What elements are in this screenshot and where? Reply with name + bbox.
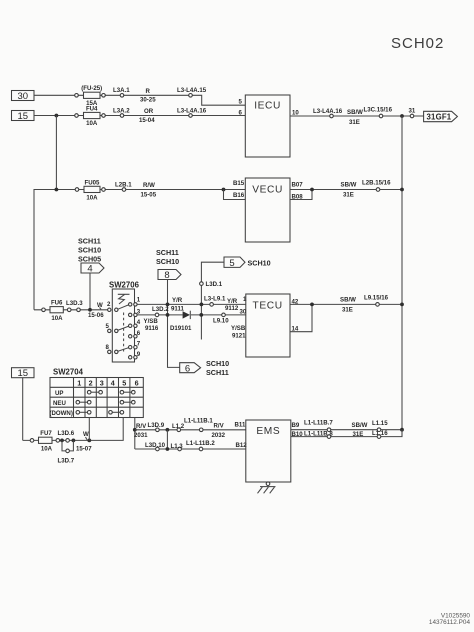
svg-text:VECU: VECU bbox=[252, 184, 283, 195]
wire label Y/R 9112 bbox=[225, 298, 239, 312]
terminal box 15 lower bbox=[12, 368, 35, 379]
wire TECU 14 tie bbox=[290, 304, 312, 331]
switch SW2704 table bbox=[50, 367, 144, 417]
op-amp U2: VECU box bbox=[245, 178, 290, 242]
svg-text:B16: B16 bbox=[233, 192, 245, 199]
svg-text:5: 5 bbox=[229, 258, 234, 269]
junction bbox=[310, 188, 314, 192]
svg-text:6: 6 bbox=[135, 378, 139, 387]
svg-text:8: 8 bbox=[164, 270, 169, 281]
svg-text:7: 7 bbox=[137, 341, 141, 348]
junction flag4 tie bbox=[88, 308, 92, 312]
svg-text:R/V: R/V bbox=[214, 422, 225, 429]
svg-text:B15: B15 bbox=[233, 180, 245, 187]
junction bbox=[55, 188, 59, 192]
svg-text:9111: 9111 bbox=[171, 305, 184, 312]
contact UP 2-3 bbox=[87, 390, 102, 394]
ground bus 31E vertical bbox=[401, 116, 403, 437]
svg-text:SW2704: SW2704 bbox=[53, 367, 84, 376]
svg-text:4: 4 bbox=[137, 319, 141, 326]
wire label R/W 15-05 bbox=[141, 182, 157, 198]
wire label Y/R 9111 bbox=[171, 297, 184, 312]
op-amp U4: EMS box bbox=[246, 420, 291, 482]
svg-text:SCH10: SCH10 bbox=[248, 258, 271, 267]
junction flag8 net on wire1 bbox=[166, 303, 170, 307]
junction jumper left bbox=[60, 439, 64, 443]
svg-text:L3D.7: L3D.7 bbox=[58, 457, 75, 464]
terminal box 30 bbox=[12, 91, 35, 102]
svg-text:31E: 31E bbox=[349, 119, 360, 126]
svg-text:L1-L11B.1: L1-L11B.1 bbox=[184, 417, 213, 424]
junction tie on B11 net bbox=[166, 428, 170, 432]
wire label SB/W 31E bbox=[341, 182, 357, 199]
wire VECU B08 tie bbox=[290, 190, 312, 200]
svg-text:L3A.1: L3A.1 bbox=[113, 87, 130, 94]
svg-text:4: 4 bbox=[111, 378, 115, 387]
terminal circle bbox=[67, 308, 71, 312]
switch SW2706 bbox=[109, 280, 140, 362]
terminal circle bbox=[30, 439, 34, 443]
svg-text:(DOWN): (DOWN) bbox=[50, 410, 73, 417]
svg-text:D19101: D19101 bbox=[170, 325, 192, 332]
svg-text:SB/W: SB/W bbox=[347, 109, 363, 116]
junction L3D.1 net on wire1 bbox=[200, 303, 204, 307]
net labels SCH11 SCH10 right bbox=[156, 248, 179, 266]
node L1-L11B.2 bbox=[186, 440, 215, 451]
junction B15/B16 tie bbox=[222, 188, 226, 192]
svg-text:IECU: IECU bbox=[254, 101, 281, 112]
op-amp U3: TECU box bbox=[246, 294, 290, 357]
node L3A.1 bbox=[113, 87, 130, 97]
jumper loop L3D.7 bbox=[58, 440, 75, 464]
wire label R/V 2032 bbox=[212, 422, 226, 439]
flag 8 bbox=[158, 270, 181, 282]
svg-text:EMS: EMS bbox=[256, 426, 280, 437]
terminal circle bbox=[75, 188, 79, 192]
wire 30 rail bbox=[34, 95, 245, 105]
node L2B.15/16 bbox=[362, 179, 391, 191]
svg-text:1: 1 bbox=[77, 378, 81, 387]
svg-text:TECU: TECU bbox=[253, 301, 283, 312]
flag 4 bbox=[81, 263, 104, 275]
node L2B.1 bbox=[115, 181, 132, 191]
svg-text:L9.10: L9.10 bbox=[213, 317, 229, 324]
wire left 15-net vertical bbox=[23, 116, 57, 441]
node L9.10 bbox=[213, 313, 229, 324]
svg-text:30: 30 bbox=[18, 91, 29, 102]
svg-text:L3D.1: L3D.1 bbox=[206, 281, 223, 288]
junction on B11 net bbox=[133, 428, 137, 432]
pin circles right rows 1 3 4 6 7 9 bbox=[129, 303, 138, 359]
wire EMS B10 to bus bbox=[291, 430, 402, 437]
net labels SCH11 SCH10 SCH05 bbox=[78, 236, 101, 263]
wire IECU pin10 to bus bbox=[290, 115, 424, 117]
svg-text:15-05: 15-05 bbox=[141, 191, 157, 198]
svg-text:L9.15/16: L9.15/16 bbox=[364, 295, 389, 302]
svg-text:2: 2 bbox=[89, 378, 93, 387]
wire 15 rail bbox=[34, 115, 245, 117]
svg-text:10A: 10A bbox=[86, 194, 98, 201]
contact pin2-pin1 bbox=[118, 305, 129, 309]
svg-text:L1.2: L1.2 bbox=[172, 423, 185, 430]
svg-text:4: 4 bbox=[87, 264, 92, 275]
wire label R/V 2031 bbox=[134, 423, 148, 439]
node L3D.9 bbox=[148, 422, 165, 431]
svg-text:B9: B9 bbox=[292, 422, 300, 429]
svg-text:SB/W: SB/W bbox=[341, 182, 357, 189]
flag 5 bbox=[224, 257, 271, 269]
node 31 bbox=[409, 107, 416, 117]
svg-text:R: R bbox=[146, 88, 151, 95]
terminal circle bbox=[75, 114, 79, 118]
svg-text:SCH11: SCH11 bbox=[206, 368, 229, 377]
node L1.16 bbox=[372, 430, 388, 439]
node L1-L11B.1 bbox=[184, 417, 213, 431]
svg-text:10A: 10A bbox=[41, 445, 53, 452]
svg-text:SCH10: SCH10 bbox=[78, 245, 101, 254]
svg-text:SCH11: SCH11 bbox=[156, 248, 179, 257]
contact UP 5-6 bbox=[120, 390, 135, 394]
node L1.15 bbox=[372, 420, 388, 431]
svg-text:L1.15: L1.15 bbox=[372, 420, 388, 427]
svg-text:OR: OR bbox=[144, 108, 154, 115]
svg-text:L3A.2: L3A.2 bbox=[113, 107, 130, 114]
junction bus TECU bbox=[400, 303, 404, 307]
svg-text:FU7: FU7 bbox=[40, 430, 52, 437]
svg-text:6: 6 bbox=[137, 330, 141, 337]
contact pin5-pin4 bbox=[118, 326, 129, 330]
svg-text:SCH05: SCH05 bbox=[78, 254, 101, 263]
svg-text:9121: 9121 bbox=[232, 332, 246, 339]
svg-text:6: 6 bbox=[185, 363, 190, 374]
svg-text:R/W: R/W bbox=[143, 182, 155, 189]
svg-text:(FU-25): (FU-25) bbox=[81, 85, 102, 92]
svg-text:31E: 31E bbox=[343, 191, 354, 198]
svg-text:9116: 9116 bbox=[145, 325, 159, 332]
svg-text:FU6: FU6 bbox=[51, 300, 63, 307]
wire label R 30-25 bbox=[140, 88, 156, 104]
svg-text:B11: B11 bbox=[235, 421, 246, 428]
op-amp U1: IECU box bbox=[245, 95, 290, 157]
node L3D.3 bbox=[66, 300, 83, 311]
svg-text:15-06: 15-06 bbox=[88, 312, 104, 319]
svg-text:FU4: FU4 bbox=[86, 105, 98, 112]
wire EMS B9 to bus bbox=[291, 429, 402, 431]
label Y/SB 9121 bbox=[231, 325, 246, 339]
terminal box 15 bbox=[12, 111, 35, 122]
wire label SB/W 31E bbox=[340, 296, 356, 313]
pin4 label Y/SB 9116 bbox=[144, 318, 159, 332]
wire label W 15-06 bbox=[88, 302, 104, 319]
svg-text:SCH11: SCH11 bbox=[78, 236, 101, 245]
wire FU7 rail bbox=[23, 418, 124, 441]
ground EMS bbox=[258, 482, 276, 493]
svg-text:R/V: R/V bbox=[136, 423, 147, 430]
wire flag5 to L3D.1 bbox=[201, 262, 224, 339]
contact NEU 1-2 bbox=[76, 400, 91, 404]
flag 6 bbox=[180, 363, 201, 375]
terminal circle bbox=[102, 94, 106, 98]
svg-text:15: 15 bbox=[18, 111, 29, 122]
fuse FU4 10A bbox=[84, 105, 101, 127]
svg-text:15: 15 bbox=[18, 368, 29, 379]
junction bbox=[310, 303, 314, 307]
svg-text:10A: 10A bbox=[86, 120, 98, 127]
svg-text:L1.16: L1.16 bbox=[372, 430, 388, 437]
node L3D.10 bbox=[145, 442, 166, 451]
junction bus EMS bbox=[400, 428, 404, 432]
node L1-L11B.7 bbox=[304, 419, 333, 431]
svg-text:15-07: 15-07 bbox=[76, 446, 92, 453]
svg-text:Y/R: Y/R bbox=[172, 297, 183, 304]
svg-text:31E: 31E bbox=[342, 307, 353, 314]
svg-text:SB/W: SB/W bbox=[352, 422, 368, 429]
node L3-L4A.16 bbox=[177, 107, 207, 117]
svg-text:L1.3: L1.3 bbox=[171, 443, 184, 450]
wire TECU 42 to bus bbox=[290, 303, 402, 305]
contact pin8-pin7 bbox=[118, 348, 129, 352]
node L3C.15/16 bbox=[364, 107, 393, 118]
fuse FU05 10A bbox=[84, 179, 100, 201]
wire SW2706 pin3 to TECU pin30 bbox=[137, 314, 246, 316]
node L1.2 bbox=[172, 423, 185, 432]
wire EMS B11 net bbox=[135, 429, 246, 431]
svg-text:L2B.15/16: L2B.15/16 bbox=[362, 179, 391, 186]
node L3D.2 bbox=[152, 306, 169, 317]
node L1.3 bbox=[171, 443, 184, 451]
node L3A.2 bbox=[113, 107, 130, 117]
svg-text:L3-L4A.16: L3-L4A.16 bbox=[313, 108, 343, 115]
wire SW2706 pin1 to TECU pin1 bbox=[137, 303, 246, 305]
wire col6 riser to B11/B12 nets bbox=[134, 418, 136, 450]
svg-text:15-04: 15-04 bbox=[139, 117, 155, 124]
svg-text:L3D.6: L3D.6 bbox=[58, 430, 75, 437]
pin circles left rows 2 5 8 bbox=[108, 308, 118, 354]
junction jumper right bbox=[72, 439, 76, 443]
fuse FU-25 15A bbox=[81, 85, 102, 107]
wire EMS B12 net bbox=[135, 448, 246, 450]
svg-text:FU05: FU05 bbox=[85, 179, 101, 186]
svg-text:L1-L11B.7: L1-L11B.7 bbox=[304, 419, 333, 426]
svg-text:L3-L4A.15: L3-L4A.15 bbox=[177, 87, 207, 94]
svg-text:9: 9 bbox=[137, 351, 141, 358]
node L3D.1 bbox=[200, 281, 223, 288]
svg-text:10A: 10A bbox=[51, 315, 63, 322]
svg-text:1: 1 bbox=[137, 297, 141, 304]
junction bus top bbox=[400, 114, 404, 118]
svg-text:L3D.10: L3D.10 bbox=[145, 442, 166, 449]
contact NEU 5-6 bbox=[120, 400, 135, 404]
fuse FU7 10A bbox=[39, 430, 53, 452]
wire VECU supply rail bbox=[34, 189, 245, 191]
svg-text:SB/W: SB/W bbox=[340, 296, 356, 303]
flag 31GF1 bbox=[424, 111, 458, 121]
svg-text:NEU: NEU bbox=[53, 400, 66, 407]
footer document numbers bbox=[429, 613, 471, 627]
node L3-L9.1 bbox=[204, 296, 226, 307]
svg-text:L3-L4A.16: L3-L4A.16 bbox=[177, 107, 207, 114]
svg-text:L3C.15/16: L3C.15/16 bbox=[364, 107, 393, 114]
pin number labels SW2706 bbox=[106, 297, 141, 359]
svg-text:L1-L11B.8: L1-L11B.8 bbox=[304, 430, 333, 437]
svg-text:Y/SB: Y/SB bbox=[144, 318, 159, 325]
junction flag8 net on wire3 bbox=[166, 313, 170, 317]
terminal circle bbox=[102, 114, 106, 118]
terminal circle bbox=[102, 188, 106, 192]
svg-text:9112: 9112 bbox=[225, 305, 239, 312]
terminal circle bbox=[75, 94, 79, 98]
junction stub on wire3 bbox=[199, 313, 203, 317]
wire flag4 to W net bbox=[89, 273, 91, 310]
wire VECU B07 to bus bbox=[290, 189, 402, 191]
svg-text:UP: UP bbox=[55, 390, 63, 397]
svg-text:L3-L9.1: L3-L9.1 bbox=[204, 296, 226, 303]
svg-text:L1-L11B.2: L1-L11B.2 bbox=[186, 440, 215, 447]
svg-text:14376112.P04: 14376112.P04 bbox=[429, 619, 471, 626]
node L3-L4A.15 bbox=[177, 87, 207, 97]
svg-text:3: 3 bbox=[137, 308, 141, 315]
junction tie on B12 net bbox=[166, 447, 170, 451]
svg-text:SCH10: SCH10 bbox=[156, 257, 179, 266]
wire label OR 15-04 bbox=[139, 108, 155, 124]
svg-text:L3D.9: L3D.9 bbox=[148, 422, 165, 429]
svg-text:SW2706: SW2706 bbox=[109, 280, 140, 289]
node L3D.6 bbox=[58, 430, 75, 442]
wire flag8 down to flag6 bbox=[168, 280, 180, 368]
svg-text:31GF1: 31GF1 bbox=[427, 113, 452, 122]
svg-text:L3D.3: L3D.3 bbox=[66, 300, 83, 307]
wire tie B11-B12 bbox=[166, 430, 168, 449]
terminal circle bbox=[56, 439, 60, 443]
junction bbox=[55, 114, 59, 118]
svg-text:5: 5 bbox=[122, 378, 126, 387]
svg-text:B07: B07 bbox=[292, 181, 304, 188]
wire B16 branch bbox=[224, 190, 246, 200]
wire label SB/W 31E bbox=[347, 109, 363, 126]
wire label SB/W 31E bbox=[352, 422, 368, 438]
wire FU6 W rail bbox=[34, 309, 108, 311]
contact DOWN 4-5 bbox=[109, 411, 124, 415]
svg-text:31: 31 bbox=[409, 107, 416, 114]
svg-text:2032: 2032 bbox=[212, 432, 226, 439]
wire label W 15-07 bbox=[76, 431, 92, 452]
terminal circle bbox=[42, 308, 46, 312]
contact DOWN 1-2 bbox=[76, 411, 91, 415]
net labels SCH10 SCH11 at flag6 bbox=[206, 359, 229, 377]
svg-text:SCH02: SCH02 bbox=[391, 35, 444, 52]
fuse FU6 10A bbox=[50, 300, 63, 322]
junction col2 riser bbox=[87, 418, 91, 443]
node L9.15/16 bbox=[364, 295, 389, 307]
svg-text:Y/SB: Y/SB bbox=[231, 325, 246, 332]
svg-text:SCH10: SCH10 bbox=[206, 359, 229, 368]
diode D19101 bbox=[170, 311, 192, 332]
svg-text:3: 3 bbox=[100, 378, 104, 387]
svg-text:2031: 2031 bbox=[134, 432, 148, 439]
node L1-L11B.8 bbox=[304, 430, 333, 438]
junction bus VECU bbox=[400, 188, 404, 192]
node L3-L4A.16 right bbox=[313, 108, 343, 118]
svg-text:30-25: 30-25 bbox=[140, 97, 156, 104]
svg-text:L2B.1: L2B.1 bbox=[115, 181, 132, 188]
svg-text:L3D.2: L3D.2 bbox=[152, 306, 169, 313]
